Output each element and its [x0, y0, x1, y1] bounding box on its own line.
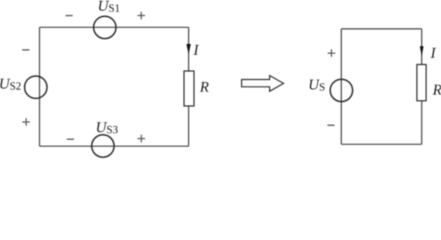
- wire: right loop bottom segment: [341, 143, 421, 145]
- wire: left loop bottom segment: [40, 145, 189, 147]
- polarity plus (US2 bottom): [22, 118, 30, 126]
- polarity minus (US bottom): [327, 125, 334, 126]
- wire: right loop top segment: [341, 28, 421, 30]
- label US2: [0, 79, 20, 90]
- label US1: [99, 1, 119, 12]
- resistor R (right circuit): [417, 65, 426, 101]
- wire: left loop top segment: [40, 26, 189, 28]
- wire: right loop left segment: [340, 29, 342, 144]
- polarity plus (US1 right): [137, 12, 145, 20]
- wire: left loop left segment: [39, 27, 41, 146]
- label I (right circuit): [431, 48, 437, 58]
- polarity minus (US3 left): [67, 139, 74, 140]
- label R (right circuit): [433, 85, 441, 95]
- voltage source US2: [25, 76, 47, 98]
- polarity plus (US3 right): [138, 135, 146, 143]
- polarity minus (US1 left): [66, 15, 73, 16]
- current arrow I (right circuit): [420, 46, 424, 56]
- wire: right loop right segment: [421, 29, 423, 144]
- voltage source US3: [92, 135, 114, 157]
- voltage source US: [330, 79, 352, 101]
- resistor R (left circuit): [184, 71, 194, 106]
- equivalence arrow: [242, 76, 284, 92]
- label US3: [97, 122, 118, 133]
- current arrow I (left circuit): [186, 44, 190, 54]
- wire: left loop right segment: [188, 27, 190, 146]
- label I (left circuit): [193, 45, 199, 55]
- label US: [310, 80, 325, 91]
- label R (left circuit): [200, 82, 209, 92]
- polarity plus (US top): [328, 49, 336, 57]
- polarity minus (US2 top): [22, 49, 29, 50]
- voltage source US1: [94, 16, 116, 38]
